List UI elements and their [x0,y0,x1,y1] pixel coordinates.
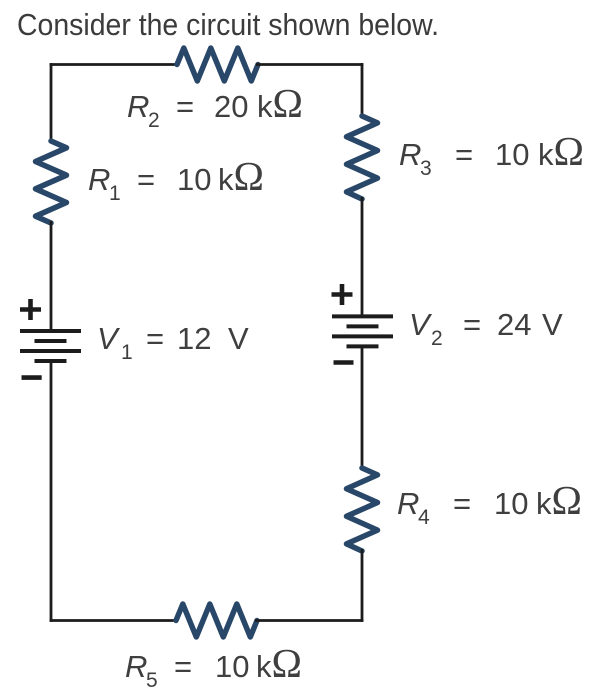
svg-text:R3=10kΩ: R3=10kΩ [399,128,584,180]
resistor R5 [176,604,257,637]
wire left lower segment (V1 to bottom) [50,361,53,622]
battery V1 minus polarity [22,375,42,380]
battery V2 plus polarity [332,284,353,305]
wire bottom-right segment [255,619,362,621]
svg-text:R2=20kΩ: R2=20kΩ [127,80,303,132]
battery V1 plus polarity [20,299,41,320]
wire top-left segment [51,65,179,67]
svg-text:R1=10kΩ: R1=10kΩ [88,153,264,205]
battery V2 minus polarity [334,360,354,365]
wire right upper segment (top to R3) [361,63,364,118]
resistor R3 [347,116,378,199]
svg-text:R5=10kΩ: R5=10kΩ [125,640,302,692]
wire top-right segment [256,65,362,67]
svg-text:V2=24V: V2=24V [409,307,563,350]
wire bottom-left segment [51,619,178,621]
svg-text:V1=12V: V1=12V [97,321,249,364]
wire right segment (V2 to R4) [361,346,364,470]
resistor R2 [177,48,258,81]
battery V2 plates [332,316,393,346]
wire right segment (R3 to V2) [361,197,364,316]
svg-text:Consider the circuit shown bel: Consider the circuit shown below. [17,7,439,42]
wire left middle segment (R1 to V1) [50,221,53,330]
svg-text:R4=10kΩ: R4=10kΩ [397,477,582,529]
wire right lower segment (R4 to bottom) [361,549,364,622]
resistor R1 [36,141,67,223]
battery V1 plates [20,331,81,361]
wire left upper segment [50,63,53,143]
resistor R4 [347,468,378,551]
